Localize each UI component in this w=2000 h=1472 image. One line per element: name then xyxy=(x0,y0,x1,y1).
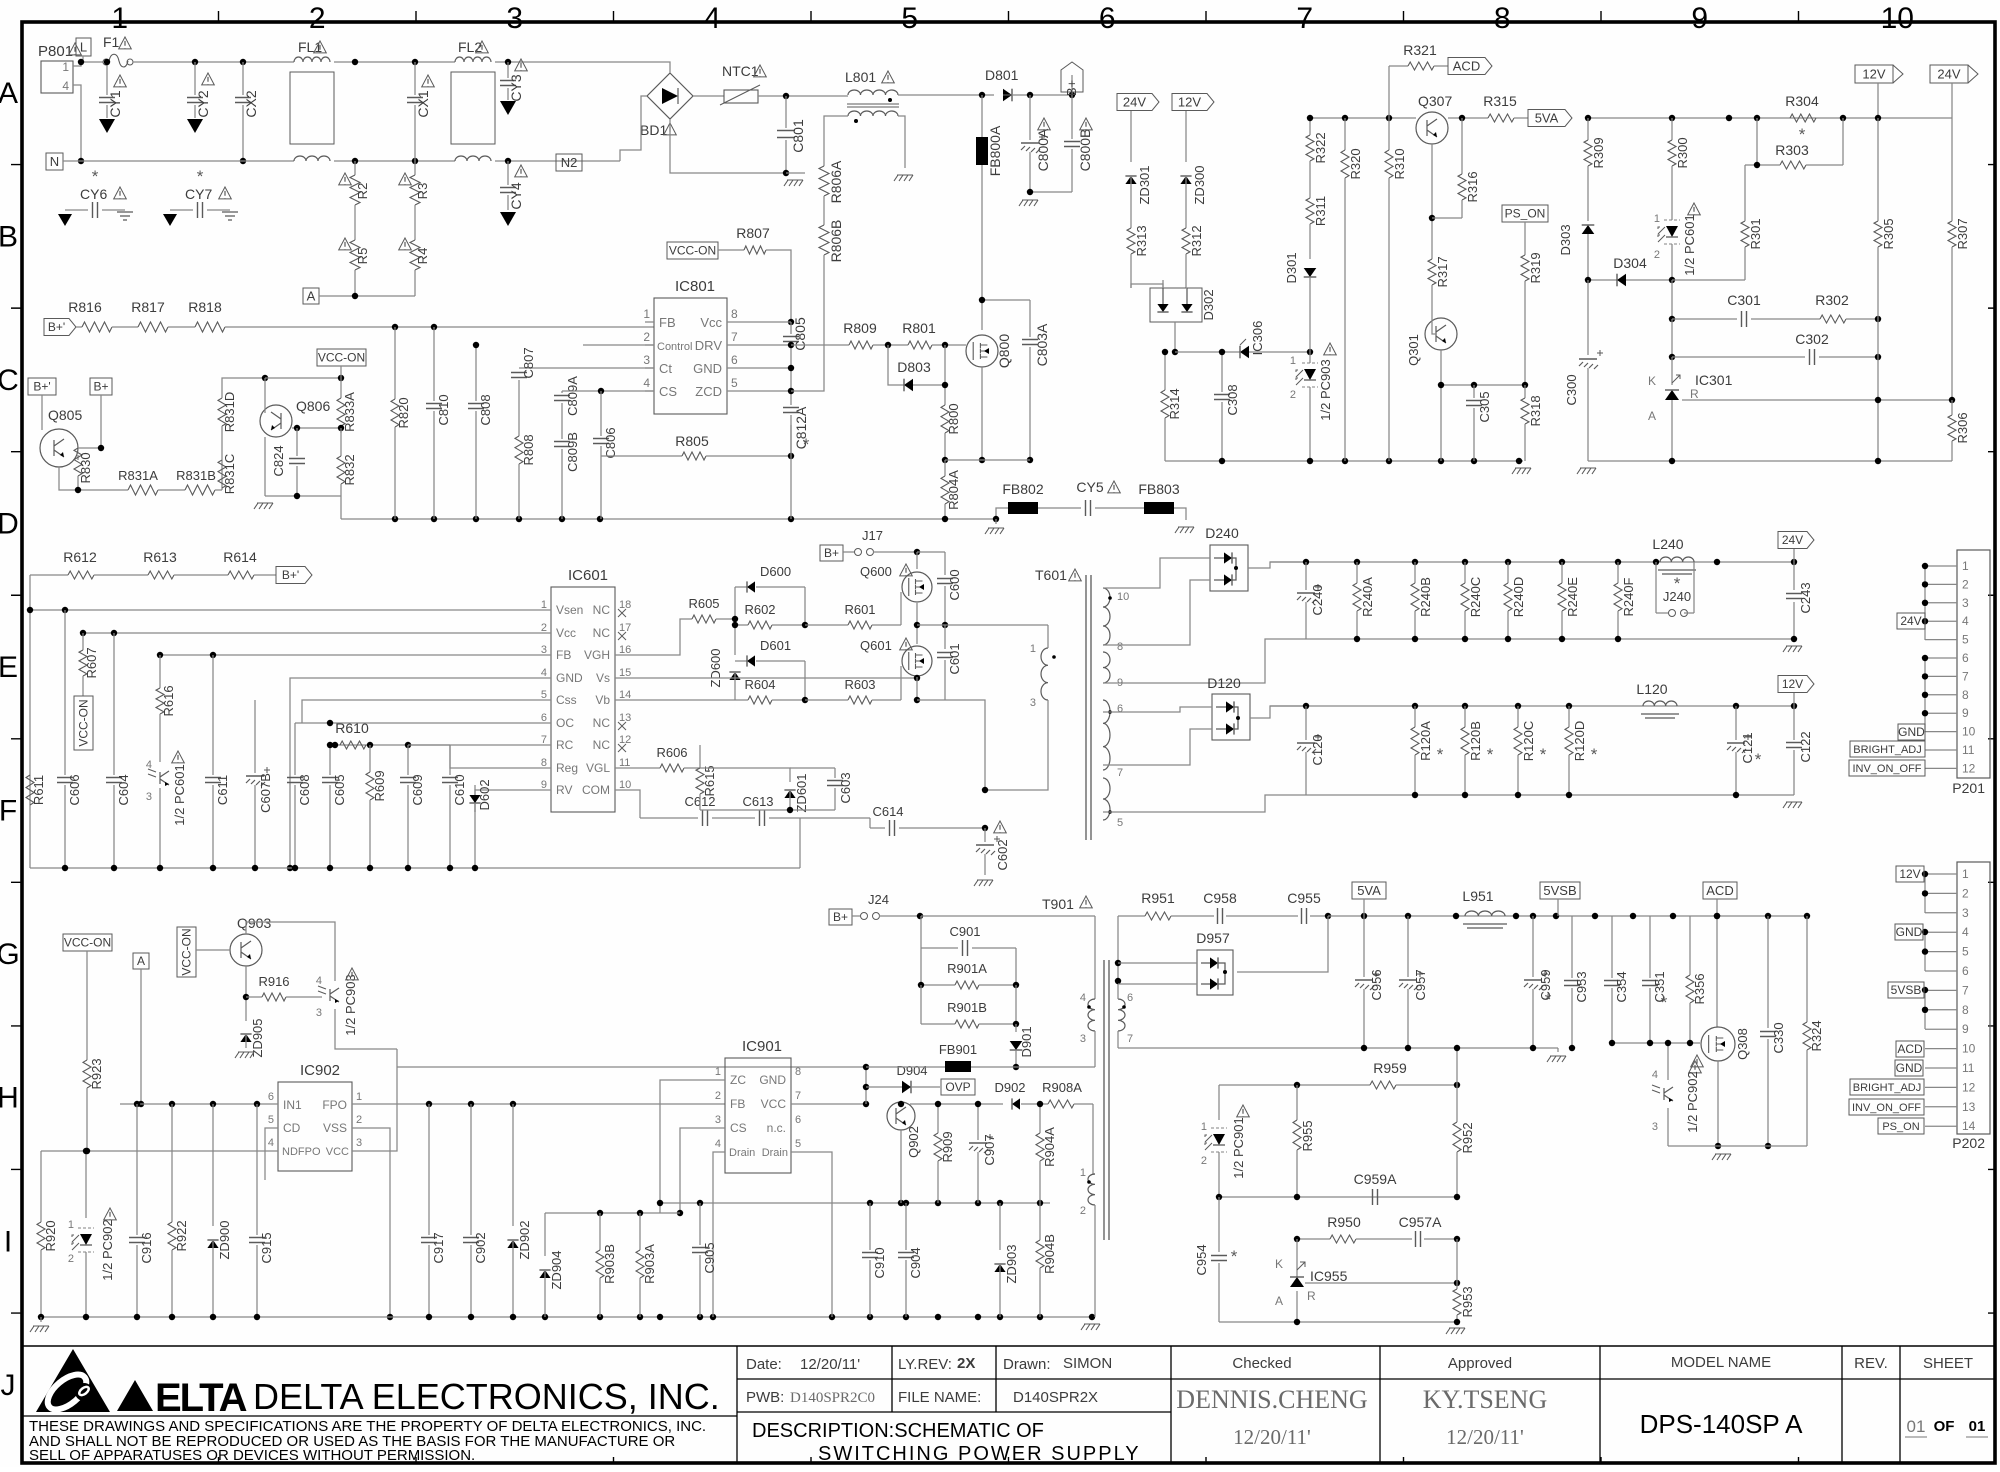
ground at C801 xyxy=(786,172,805,174)
resistor R614 xyxy=(174,574,228,576)
svg-text:VGL: VGL xyxy=(586,761,610,775)
svg-text:R2: R2 xyxy=(355,183,370,200)
svg-text:B+': B+' xyxy=(282,568,299,582)
node A xyxy=(303,288,319,304)
box ACD 5V xyxy=(1703,882,1737,899)
resistor R901A xyxy=(920,948,922,985)
svg-text:L: L xyxy=(80,40,87,55)
capacitor C958 xyxy=(1171,915,1214,917)
svg-text:*: * xyxy=(1540,745,1547,764)
svg-text:D303: D303 xyxy=(1558,224,1573,255)
svg-text:R901B: R901B xyxy=(947,1000,987,1015)
resistor R606 xyxy=(660,764,684,772)
wire Vcc pin2 xyxy=(83,632,551,634)
svg-text:12/20/11': 12/20/11' xyxy=(1446,1425,1524,1449)
capacitor C904 xyxy=(905,1203,907,1250)
svg-text:C610: C610 xyxy=(452,774,467,805)
svg-text:C809B: C809B xyxy=(565,432,580,472)
svg-text:4: 4 xyxy=(62,79,69,93)
svg-text:*: * xyxy=(1545,990,1552,1009)
capacitor C959A xyxy=(1373,1189,1378,1205)
resistor R356 xyxy=(1689,916,1691,975)
svg-text:*: * xyxy=(1487,745,1494,764)
svg-text:GND: GND xyxy=(1898,725,1925,739)
svg-text:1: 1 xyxy=(62,60,69,74)
svg-text:R908A: R908A xyxy=(1042,1080,1082,1095)
opto PC901 led side xyxy=(1218,1085,1220,1120)
vertical x866 xyxy=(865,1067,867,1104)
svg-text:D140SPR2X: D140SPR2X xyxy=(1013,1389,1098,1406)
diode D301 xyxy=(1304,268,1317,277)
svg-text:D120: D120 xyxy=(1207,675,1241,691)
svg-text:NC: NC xyxy=(593,716,611,730)
svg-text:11: 11 xyxy=(1962,743,1975,757)
scr IC306 xyxy=(1175,351,1240,353)
svg-text:24V: 24V xyxy=(1900,614,1921,628)
svg-text:5: 5 xyxy=(731,376,738,390)
svg-text:2: 2 xyxy=(1201,1155,1207,1167)
box 5VSB xyxy=(1540,882,1580,899)
svg-text:*: * xyxy=(1661,993,1668,1012)
flag 12V right xyxy=(1855,65,1893,83)
svg-text:R818: R818 xyxy=(188,299,222,315)
flag 12V rail xyxy=(1793,692,1795,706)
wire D601/R604 join xyxy=(804,661,806,700)
wire Reg pin8 xyxy=(450,745,551,768)
svg-text:Date:: Date: xyxy=(746,1356,782,1373)
svg-text:4: 4 xyxy=(715,1138,721,1150)
zener ZD903 xyxy=(999,1203,1001,1250)
node A box G row xyxy=(133,953,149,969)
wire top rail Q307 xyxy=(1310,117,1416,119)
svg-text:C954: C954 xyxy=(1194,1244,1209,1275)
title block vertical dividers xyxy=(736,1346,738,1463)
standby ground bus xyxy=(41,1316,1092,1318)
svg-text:CS: CS xyxy=(730,1121,747,1135)
wire T901 pin3 down to FB901 net xyxy=(1094,1031,1096,1067)
svg-text:R312: R312 xyxy=(1189,225,1204,256)
wire R801 to Q800 gate xyxy=(932,344,966,346)
resistor R616 xyxy=(159,655,161,688)
svg-text:D602: D602 xyxy=(477,779,492,810)
capacitor C120 electrolytic xyxy=(1305,706,1307,740)
svg-text:B+': B+' xyxy=(48,320,65,334)
capacitor C603 xyxy=(834,768,836,778)
resistor R303 xyxy=(1756,118,1758,165)
svg-text:9: 9 xyxy=(541,779,547,791)
svg-text:4: 4 xyxy=(1962,925,1969,939)
flag 24V top xyxy=(1117,94,1159,111)
svg-text:Q903: Q903 xyxy=(237,915,271,931)
svg-text:T901: T901 xyxy=(1042,896,1074,912)
box GND P202 xyxy=(1895,924,1923,940)
svg-text:R602: R602 xyxy=(744,602,775,617)
svg-text:D901: D901 xyxy=(1019,1026,1034,1057)
wire mid rail to T601 xyxy=(945,624,1048,626)
svg-text:B+: B+ xyxy=(1064,80,1079,96)
svg-text:R800: R800 xyxy=(946,403,961,434)
capacitor C121 electrolytic xyxy=(1735,706,1737,740)
svg-text:CY3: CY3 xyxy=(508,74,524,101)
resistor R309 xyxy=(1587,118,1589,140)
capacitor C805 xyxy=(790,322,792,334)
wire N2 to bridge xyxy=(620,96,647,161)
wire ZCD to R806B xyxy=(791,365,824,391)
svg-text:1: 1 xyxy=(541,599,547,611)
svg-text:6: 6 xyxy=(1127,992,1133,1004)
svg-text:C308: C308 xyxy=(1225,384,1240,415)
wire VCC pin7 xyxy=(791,1103,866,1105)
capacitor C609 xyxy=(407,745,409,775)
diode D801 xyxy=(1003,89,1012,102)
svg-text:Reg: Reg xyxy=(556,761,578,775)
svg-text:D304: D304 xyxy=(1613,255,1647,271)
resistor R605 xyxy=(692,615,716,623)
feedback node wire y1197 xyxy=(1219,1196,1457,1198)
svg-text:R3: R3 xyxy=(415,183,430,200)
svg-text:C302: C302 xyxy=(1795,331,1829,347)
svg-text:Q301: Q301 xyxy=(1406,334,1421,366)
transistor Q806 xyxy=(260,405,292,437)
capacitor C809A xyxy=(554,396,570,401)
capacitor C300 xyxy=(1587,280,1589,355)
wire Drain pin4 xyxy=(713,1152,725,1317)
svg-text:*: * xyxy=(1755,750,1762,769)
wire ZC pin1 xyxy=(660,1080,725,1213)
wire CD pin5 xyxy=(265,1128,278,1180)
svg-text:R315: R315 xyxy=(1483,93,1517,109)
svg-text:R903B: R903B xyxy=(602,1244,617,1284)
resistor R240F xyxy=(1617,562,1619,583)
svg-text:7: 7 xyxy=(731,330,738,344)
svg-text:1/2 PC903: 1/2 PC903 xyxy=(1318,359,1333,420)
svg-text:R955: R955 xyxy=(1300,1120,1315,1151)
resistor R809 xyxy=(849,341,873,349)
svg-text:P202: P202 xyxy=(1952,1135,1985,1151)
capacitor CX2 xyxy=(242,62,244,95)
resistor R920 xyxy=(40,1151,42,1222)
ground feedback xyxy=(1446,1328,1465,1334)
svg-text:R603: R603 xyxy=(844,677,875,692)
resistor R4 xyxy=(410,240,420,270)
wire A net xyxy=(319,295,415,297)
svg-text:T601: T601 xyxy=(1035,567,1067,583)
svg-text:CX2: CX2 xyxy=(243,90,259,117)
svg-text:D240: D240 xyxy=(1205,525,1239,541)
resistor R304 xyxy=(1790,114,1816,122)
wire CS pin3 xyxy=(680,1128,725,1213)
dual diode D957 xyxy=(1197,950,1233,995)
svg-text:6: 6 xyxy=(541,712,547,724)
svg-text:NC: NC xyxy=(593,603,611,617)
inductor L240 xyxy=(1660,557,1694,562)
svg-text:5: 5 xyxy=(1117,817,1123,829)
svg-text:Vs: Vs xyxy=(596,671,610,685)
svg-text:Q308: Q308 xyxy=(1735,1028,1750,1060)
svg-text:C: C xyxy=(0,364,19,397)
svg-text:SHEET: SHEET xyxy=(1923,1355,1973,1372)
svg-text:8: 8 xyxy=(1962,688,1969,702)
svg-text:5: 5 xyxy=(901,2,918,35)
opto PC601 led side xyxy=(1666,226,1678,237)
zener ZD300 xyxy=(1185,111,1187,162)
zener ZD600 xyxy=(729,672,740,680)
svg-text:R605: R605 xyxy=(688,596,719,611)
wire T601 pin5 return xyxy=(1103,795,1306,812)
svg-text:1: 1 xyxy=(1080,1167,1086,1179)
svg-text:D600: D600 xyxy=(760,564,791,579)
svg-text:1: 1 xyxy=(1201,1121,1207,1133)
svg-text:3: 3 xyxy=(146,791,152,803)
wire R831D top xyxy=(222,378,265,398)
svg-text:C915: C915 xyxy=(259,1232,274,1263)
wire D803 to R800 xyxy=(944,345,946,405)
T901 lower winding 1-2 xyxy=(1088,1174,1095,1205)
svg-text:CY5: CY5 xyxy=(1076,479,1103,495)
box 5VA xyxy=(1352,882,1386,899)
column ticks top/bottom xyxy=(218,11,220,1464)
svg-text:CX1: CX1 xyxy=(415,90,431,117)
svg-text:ZD601: ZD601 xyxy=(794,773,809,812)
svg-text:C600: C600 xyxy=(947,569,962,600)
svg-text:PS_ON: PS_ON xyxy=(1882,1121,1919,1133)
svg-text:R612: R612 xyxy=(63,549,97,565)
resistor R240D xyxy=(1507,562,1509,583)
svg-text:R120C: R120C xyxy=(1521,721,1536,761)
svg-text:R611: R611 xyxy=(31,775,46,805)
svg-text:C800B: C800B xyxy=(1077,129,1093,172)
svg-text:C603: C603 xyxy=(838,772,853,803)
resistor R311 xyxy=(1306,198,1314,224)
resistor R818 xyxy=(168,326,195,328)
wire RV pin9 xyxy=(475,790,551,812)
svg-text:4: 4 xyxy=(541,667,547,679)
wire Vb route xyxy=(615,699,735,701)
ground Q806 xyxy=(254,503,273,509)
svg-text:Q902: Q902 xyxy=(906,1126,921,1158)
svg-text:R806B: R806B xyxy=(828,220,844,263)
capacitor C301 xyxy=(1672,318,1737,320)
feedback bottom wire xyxy=(1219,1321,1457,1323)
zener ZD601 wires xyxy=(700,768,790,782)
svg-text:5: 5 xyxy=(795,1138,801,1150)
box PS_ON xyxy=(1502,205,1548,222)
zener ZD902 xyxy=(512,1104,514,1226)
svg-text:K: K xyxy=(1275,1257,1283,1271)
svg-text:R604: R604 xyxy=(744,677,775,692)
flag B+sense inverter xyxy=(254,574,276,576)
svg-text:VCC: VCC xyxy=(326,1146,349,1158)
svg-text:D904: D904 xyxy=(896,1063,927,1078)
svg-text:12/20/11': 12/20/11' xyxy=(800,1356,860,1373)
svg-text:CY7: CY7 xyxy=(185,186,212,202)
wire N line xyxy=(63,160,294,162)
mosfet Q601 xyxy=(902,646,932,676)
resistor R816 xyxy=(76,326,82,328)
capacitor C812A xyxy=(783,408,799,413)
T601 secondary winding 9 xyxy=(1103,652,1110,683)
node N2 xyxy=(556,154,582,171)
svg-text:PS_ON: PS_ON xyxy=(1505,207,1546,221)
svg-text:7: 7 xyxy=(1117,767,1123,779)
svg-text:R240F: R240F xyxy=(1621,577,1636,616)
svg-text:R305: R305 xyxy=(1881,218,1896,249)
svg-text:REV.: REV. xyxy=(1854,1355,1888,1372)
svg-text:3: 3 xyxy=(1080,1033,1086,1045)
wire Q601 source down xyxy=(916,677,918,700)
transistor Q307 xyxy=(1416,112,1448,144)
svg-text:SWITCHING POWER SUPPLY: SWITCHING POWER SUPPLY xyxy=(818,1443,1141,1465)
capacitor C302 xyxy=(1671,319,1673,357)
svg-text:2: 2 xyxy=(68,1253,74,1265)
24V output rail xyxy=(1270,561,1794,563)
Q308 ground wire xyxy=(1668,1145,1807,1147)
svg-text:R609: R609 xyxy=(372,770,387,801)
wire FB802 to CY5 xyxy=(1038,507,1081,509)
capacitor C803A xyxy=(1029,300,1031,337)
svg-text:VCC: VCC xyxy=(761,1097,787,1111)
svg-text:6: 6 xyxy=(1962,651,1969,665)
gate wire y1043 xyxy=(1612,1042,1700,1044)
svg-text:R909: R909 xyxy=(940,1131,955,1162)
svg-text:C305: C305 xyxy=(1477,391,1492,422)
wire RC pin7 xyxy=(335,744,551,746)
resistor R120B xyxy=(1464,706,1466,727)
svg-text:R303: R303 xyxy=(1775,142,1809,158)
wire R809 R801 xyxy=(873,344,908,346)
svg-text:GND: GND xyxy=(556,671,583,685)
svg-text:*: * xyxy=(803,435,810,454)
wire Ct net xyxy=(519,367,654,369)
svg-text:Drain: Drain xyxy=(729,1147,755,1159)
wire Q806 bottom ground xyxy=(265,495,341,497)
5V rail xyxy=(1328,915,1807,917)
svg-text:5: 5 xyxy=(1962,945,1969,959)
flag 5VA top xyxy=(1514,117,1528,119)
svg-text:10: 10 xyxy=(1962,1042,1976,1056)
wire R950 row xyxy=(1297,1238,1330,1240)
svg-text:5VSB: 5VSB xyxy=(1543,883,1576,898)
wire bridge right to NTC1 xyxy=(693,95,724,97)
resistor R602 xyxy=(735,624,748,626)
resistor R317 xyxy=(1428,259,1436,285)
diode D601 xyxy=(735,660,747,662)
IC601 box xyxy=(551,587,615,812)
connector P202 xyxy=(1957,862,1990,1134)
wire R301 bottom to D304 net xyxy=(1672,279,1745,281)
svg-text:01: 01 xyxy=(1907,1417,1926,1436)
box GND P201 xyxy=(1898,724,1925,740)
jumper J17 xyxy=(843,551,854,553)
svg-text:10: 10 xyxy=(1962,725,1976,739)
svg-text:FB901: FB901 xyxy=(939,1042,977,1057)
box INV_ON_OFF P202 xyxy=(1849,1099,1924,1115)
resistor R301 xyxy=(1741,221,1749,247)
svg-text:01: 01 xyxy=(1969,1418,1986,1435)
svg-text:C808: C808 xyxy=(478,394,493,425)
title block row lines xyxy=(737,1378,1996,1380)
capacitor CY5 xyxy=(1086,500,1091,516)
svg-text:2: 2 xyxy=(1962,577,1969,591)
svg-text:INV_ON_OFF: INV_ON_OFF xyxy=(1852,763,1921,775)
svg-text:1: 1 xyxy=(1654,213,1660,225)
resistor R909 xyxy=(937,1104,939,1133)
box ACD P202 xyxy=(1896,1041,1924,1057)
svg-text:1: 1 xyxy=(111,2,128,35)
svg-text:R120B: R120B xyxy=(1468,721,1483,761)
svg-text:R951: R951 xyxy=(1141,890,1175,906)
resistor R831B xyxy=(158,489,185,491)
svg-text:2: 2 xyxy=(715,1090,721,1102)
resistor R120A xyxy=(1414,706,1416,727)
svg-text:IC801: IC801 xyxy=(675,278,715,295)
resistor R322 xyxy=(1309,118,1311,135)
box VCC-ON G row xyxy=(63,934,112,951)
wire gate-drive lower bus xyxy=(700,809,835,811)
diode D600 xyxy=(735,586,747,588)
resistor R805 xyxy=(601,455,682,457)
svg-text:D803: D803 xyxy=(897,359,931,375)
box B+ J17 xyxy=(820,545,843,561)
capacitor CY1 xyxy=(106,62,108,95)
resistor R307 xyxy=(1948,221,1956,247)
svg-text:R607: R607 xyxy=(84,647,99,678)
resistor R831A xyxy=(78,489,128,491)
svg-text:C910: C910 xyxy=(872,1247,887,1278)
resistor R831D xyxy=(218,398,226,426)
svg-text:8: 8 xyxy=(1117,641,1123,653)
box 12V P202 xyxy=(1896,866,1924,882)
svg-text:C916: C916 xyxy=(139,1232,154,1263)
wire FL2 right xyxy=(495,61,649,63)
svg-text:2: 2 xyxy=(1654,249,1660,261)
resistor R313 xyxy=(1127,228,1135,254)
capacitor C905 xyxy=(699,1203,701,1245)
svg-text:D140SPR2C0: D140SPR2C0 xyxy=(790,1390,875,1406)
resistor R806B xyxy=(819,225,829,255)
capacitor C917 xyxy=(428,1104,430,1235)
svg-text:R950: R950 xyxy=(1327,1214,1361,1230)
capacitor C953 xyxy=(1571,916,1573,978)
svg-text:R807: R807 xyxy=(736,225,770,241)
resistor R300 xyxy=(1671,118,1673,140)
svg-text:5: 5 xyxy=(268,1114,274,1126)
svg-text:R804A: R804A xyxy=(946,470,961,510)
box B+prime xyxy=(28,378,56,395)
svg-text:Q307: Q307 xyxy=(1418,93,1452,109)
box 24V P201 xyxy=(1897,613,1925,629)
svg-text:DENNIS.CHENG: DENNIS.CHENG xyxy=(1176,1385,1367,1414)
svg-text:R304: R304 xyxy=(1785,93,1819,109)
earth arrow CY4 xyxy=(500,212,516,226)
resistor R5 xyxy=(350,240,360,270)
resistor R610 xyxy=(340,741,366,749)
svg-text:R4: R4 xyxy=(415,248,430,265)
svg-text:J17: J17 xyxy=(862,528,883,543)
svg-text:OC: OC xyxy=(556,716,574,730)
svg-text:1/2 PC902: 1/2 PC902 xyxy=(1685,1071,1700,1132)
svg-text:NTC1: NTC1 xyxy=(722,63,759,79)
svg-text:J: J xyxy=(1,1369,16,1402)
capacitor C607B electrolytic xyxy=(254,700,256,773)
resistor R952 xyxy=(1456,1085,1458,1122)
svg-text:VCC-ON: VCC-ON xyxy=(180,928,194,975)
ground C602 xyxy=(974,880,993,886)
svg-text:R901A: R901A xyxy=(947,961,987,976)
wire IC301 R terminal xyxy=(1682,399,1952,401)
svg-text:IN1: IN1 xyxy=(283,1098,302,1112)
svg-text:C601: C601 xyxy=(947,643,962,674)
